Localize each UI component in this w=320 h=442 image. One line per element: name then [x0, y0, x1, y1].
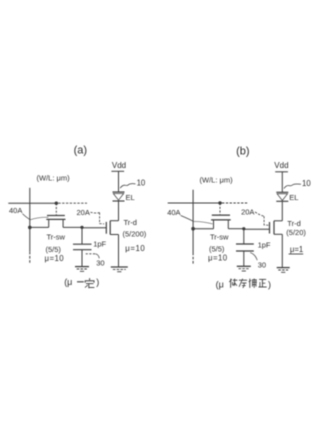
svg-text:(5/5): (5/5) — [209, 245, 225, 254]
svg-text:(5/200): (5/200) — [123, 229, 147, 238]
svg-text:Tr-d: Tr-d — [124, 218, 137, 227]
svg-text:40A: 40A — [9, 206, 22, 215]
svg-text:(μ: (μ — [216, 279, 224, 289]
svg-text:1pF: 1pF — [93, 240, 106, 249]
svg-text:Vdd: Vdd — [112, 161, 126, 170]
svg-text:20A: 20A — [241, 208, 254, 217]
svg-text:EL: EL — [126, 193, 135, 202]
svg-text:): ) — [96, 277, 99, 287]
svg-text:(a): (a) — [74, 145, 87, 157]
svg-text:(W/L: μm): (W/L: μm) — [200, 175, 234, 184]
svg-text:μ=1: μ=1 — [290, 245, 303, 254]
svg-text:10: 10 — [302, 179, 311, 188]
svg-text:EL: EL — [289, 193, 298, 202]
svg-text:(b): (b) — [236, 145, 249, 157]
svg-text:10: 10 — [137, 178, 146, 187]
svg-text:Tr-sw: Tr-sw — [47, 233, 66, 242]
svg-text:30: 30 — [96, 259, 104, 268]
svg-text:(μ: (μ — [64, 277, 72, 287]
svg-text:(5/20): (5/20) — [286, 228, 306, 237]
svg-text:μ=10: μ=10 — [208, 254, 228, 263]
svg-text:1pF: 1pF — [258, 241, 271, 250]
svg-text:(5/5): (5/5) — [46, 245, 62, 254]
svg-text:): ) — [268, 279, 271, 289]
svg-text:μ=10: μ=10 — [45, 254, 65, 263]
svg-text:20A: 20A — [77, 208, 90, 217]
svg-text:μ=10: μ=10 — [125, 244, 145, 253]
svg-text:(W/L: μm): (W/L: μm) — [37, 173, 71, 182]
svg-text:Tr-sw: Tr-sw — [210, 232, 229, 241]
svg-text:Tr-d: Tr-d — [287, 219, 300, 228]
svg-text:Vdd: Vdd — [274, 161, 288, 170]
svg-text:40A: 40A — [167, 208, 180, 217]
svg-text:30: 30 — [258, 260, 266, 269]
